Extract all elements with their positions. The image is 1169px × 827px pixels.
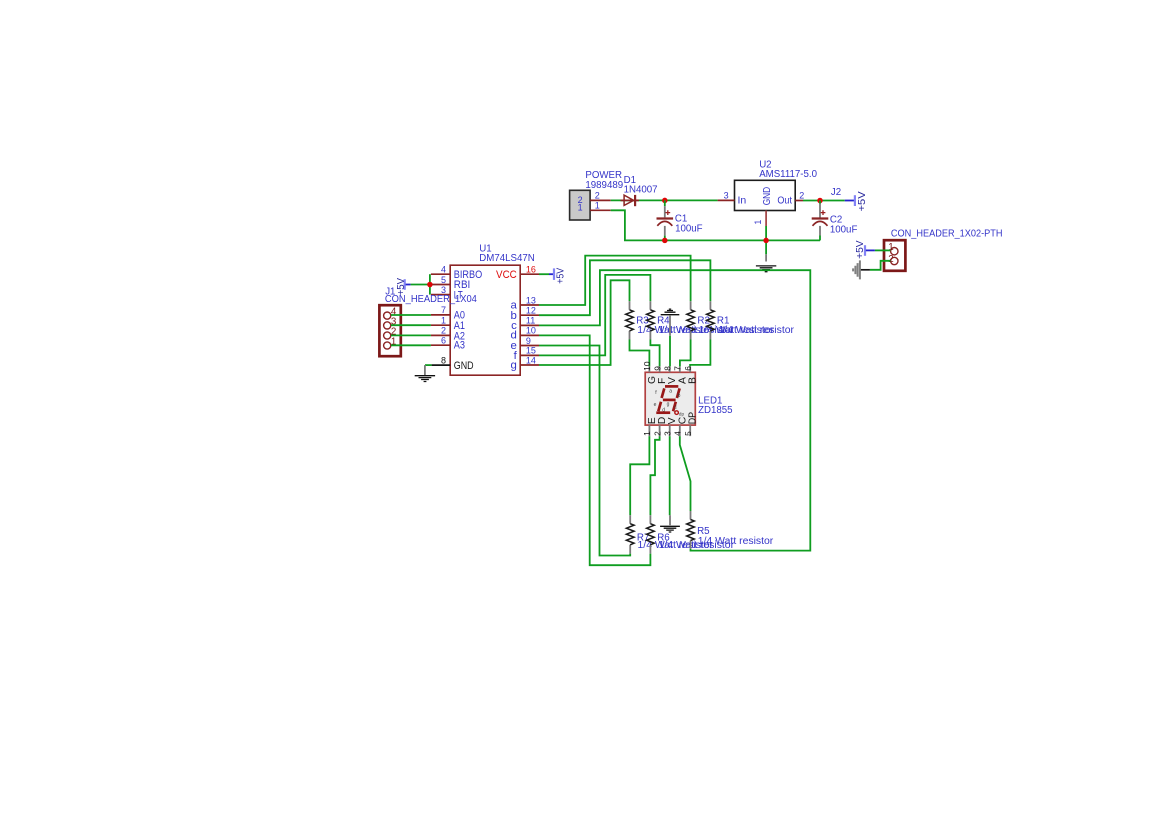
wire header pin2 to ground xyxy=(870,261,891,270)
svg-text:In: In xyxy=(738,195,747,207)
wire ground to display V top pin xyxy=(669,336,671,367)
resistor R2 xyxy=(687,301,775,339)
svg-text:1N4007: 1N4007 xyxy=(624,184,658,195)
svg-text:e: e xyxy=(654,402,657,408)
svg-text:CON_HEADER_1X02-PTH: CON_HEADER_1X02-PTH xyxy=(891,228,1003,239)
svg-text:8: 8 xyxy=(663,366,673,371)
svg-text:1: 1 xyxy=(578,203,583,213)
svg-text:2: 2 xyxy=(888,254,893,265)
segment c xyxy=(673,402,676,411)
svg-text:DM74LS47N: DM74LS47N xyxy=(479,253,534,264)
wire net b: U1 pin12 to R1 top xyxy=(539,260,710,315)
svg-text:5: 5 xyxy=(441,275,446,285)
segment f xyxy=(662,388,665,398)
voltage regulator U2 AMS1117-5.0 xyxy=(718,159,818,226)
U1 right pin stubs xyxy=(520,274,539,365)
svg-text:6: 6 xyxy=(683,366,693,371)
wire display C pin diagonal to R5 top xyxy=(680,436,691,511)
svg-text:VCC: VCC xyxy=(496,269,517,281)
wire net f: U1 pin15 to R4 top xyxy=(539,275,650,356)
svg-text:7: 7 xyxy=(441,305,446,315)
svg-text:3: 3 xyxy=(724,190,729,200)
svg-text:9: 9 xyxy=(652,366,662,371)
svg-text:4: 4 xyxy=(441,265,446,275)
junction dot GND rail xyxy=(763,238,769,244)
svg-text:1: 1 xyxy=(642,431,652,436)
segment g xyxy=(663,399,676,402)
resistor R6 xyxy=(647,515,735,553)
segment e xyxy=(658,402,661,411)
wire net c: U1 pin11 right loop to R5 bottom xyxy=(539,270,810,550)
decimal point xyxy=(675,411,679,415)
wire C1 top stub xyxy=(664,200,666,206)
svg-text:g: g xyxy=(667,402,670,408)
svg-text:1989489: 1989489 xyxy=(585,180,623,191)
wire R4 bottom to display F pin xyxy=(650,340,659,367)
wire display D pin to R6 top xyxy=(650,436,659,515)
IC U1 DM74LS47N xyxy=(431,244,539,376)
supply +5V J2 xyxy=(831,187,868,211)
wire U1 GND pin to ground xyxy=(425,364,432,366)
svg-text:Out: Out xyxy=(777,195,792,207)
segment b xyxy=(677,388,680,398)
svg-text:2: 2 xyxy=(595,190,600,200)
svg-text:CON_HEADER_1X04: CON_HEADER_1X04 xyxy=(385,294,478,305)
wire +5V to RBI junction xyxy=(411,284,430,286)
svg-text:+5V: +5V xyxy=(556,267,567,283)
junction dot C1 bottom on rail xyxy=(662,238,668,244)
7-segment display LED1 ZD1855 xyxy=(642,361,732,436)
diode D1 1N4007 xyxy=(621,175,658,206)
svg-text:7: 7 xyxy=(673,366,683,371)
svg-text:100uF: 100uF xyxy=(830,224,858,235)
wire C2 top stub xyxy=(819,201,821,204)
wire display V bottom pin to ground xyxy=(669,436,671,515)
U1 left pin stubs xyxy=(431,274,450,345)
svg-text:dp: dp xyxy=(679,411,685,416)
segment a xyxy=(665,385,678,388)
svg-text:1/4 Watt resistor: 1/4 Watt resistor xyxy=(698,536,774,547)
connector CON_HEADER_1X02-PTH xyxy=(884,228,1003,270)
junction dot at D1 cathode / C1 top xyxy=(662,198,668,204)
supply +5V at U1 BIRBO/RBI/LT xyxy=(396,278,411,296)
svg-text:1: 1 xyxy=(595,201,600,211)
svg-text:2: 2 xyxy=(441,326,446,336)
wires J1 pins to U1 A0-A3 xyxy=(391,315,431,345)
wire display E pin to R7 top xyxy=(630,436,649,515)
svg-text:8: 8 xyxy=(441,355,446,365)
svg-text:1: 1 xyxy=(753,220,763,225)
wire +5V to header pin1 xyxy=(875,249,891,251)
wire net e: U1 pin9 down to R7 bottom xyxy=(539,346,630,556)
svg-text:4: 4 xyxy=(673,431,683,436)
svg-text:16: 16 xyxy=(526,265,536,275)
svg-text:GND: GND xyxy=(761,186,773,205)
svg-text:2: 2 xyxy=(652,431,662,436)
wire U2 GND pin down xyxy=(765,226,767,254)
wire net a: U1 pin13 to R2 top xyxy=(539,256,691,305)
svg-text:1/4 Watt resistor: 1/4 Watt resistor xyxy=(719,325,795,336)
wire net GNDIN: POWER pin1 down to bottom rail xyxy=(611,210,820,240)
connector POWER 1989489 xyxy=(570,170,624,220)
resistor R1 xyxy=(707,301,795,339)
svg-text:d: d xyxy=(662,408,665,414)
svg-text:2: 2 xyxy=(799,190,804,200)
wire vertical BIRBO-RBI-LT xyxy=(429,274,431,294)
svg-text:B: B xyxy=(688,377,699,384)
wire R2 bottom to display A pin xyxy=(680,340,691,367)
capacitor C2 100uF xyxy=(812,204,858,236)
resistor R3 xyxy=(626,301,714,339)
wire R3 bottom to display G pin xyxy=(630,340,650,367)
svg-text:11: 11 xyxy=(526,316,535,326)
svg-text:13: 13 xyxy=(526,295,536,305)
svg-text:10: 10 xyxy=(642,361,652,371)
wire C2 bottom stub xyxy=(819,236,821,241)
segment d xyxy=(656,411,670,414)
svg-text:15: 15 xyxy=(526,346,536,356)
ground at header pin2 (sideways) xyxy=(853,260,870,279)
supply +5V at U1 VCC xyxy=(539,267,567,283)
display top pin leads 10 9 8 7 6 xyxy=(649,366,690,372)
svg-text:3: 3 xyxy=(663,431,673,436)
resistor R5 xyxy=(687,511,774,549)
svg-text:J2: J2 xyxy=(831,187,841,198)
svg-text:+5V: +5V xyxy=(855,240,866,259)
svg-text:14: 14 xyxy=(526,355,536,365)
display bottom pin leads 1 2 3 4 5 xyxy=(649,425,690,436)
svg-text:+5V: +5V xyxy=(396,278,407,296)
svg-text:1: 1 xyxy=(441,316,446,326)
svg-text:1: 1 xyxy=(888,242,893,253)
svg-text:ZD1855: ZD1855 xyxy=(698,405,732,416)
svg-text:9: 9 xyxy=(526,336,531,346)
svg-text:DP: DP xyxy=(688,412,699,424)
svg-text:5: 5 xyxy=(683,431,693,436)
svg-text:100uF: 100uF xyxy=(675,224,703,235)
svg-text:10: 10 xyxy=(526,326,536,336)
svg-text:A3: A3 xyxy=(454,340,465,352)
wire R1 bottom to display B pin xyxy=(690,340,710,367)
svg-text:GND: GND xyxy=(454,360,474,372)
resistor R7 xyxy=(626,515,713,553)
svg-text:b: b xyxy=(678,393,681,399)
supply +5V at header pin1 xyxy=(855,240,875,259)
svg-text:a: a xyxy=(669,389,672,395)
capacitor C1 100uF xyxy=(657,206,703,236)
junction dot at RBI xyxy=(427,282,433,288)
wire net g: U1 pin14 to R3 top xyxy=(539,280,630,365)
svg-text:g: g xyxy=(510,360,516,372)
svg-text:12: 12 xyxy=(526,306,536,316)
ground under U2 xyxy=(756,254,776,271)
svg-text:AMS1117-5.0: AMS1117-5.0 xyxy=(759,169,817,180)
wire net +5V: U2 Out to J2 supply xyxy=(803,200,845,202)
junction dot U2 out / C2 top xyxy=(817,198,823,204)
connector J1 CON_HEADER_1X04 xyxy=(379,286,477,356)
resistor R4 xyxy=(647,301,735,339)
svg-text:6: 6 xyxy=(441,336,446,346)
inverted ground above display V pin xyxy=(661,309,680,336)
wire C1 bottom stub xyxy=(664,236,666,241)
wire net d: U1 pin10 down to R6 bottom xyxy=(539,335,650,565)
wire net VIN: POWER pin2 to D1 to U2 In xyxy=(611,199,718,201)
svg-text:+5V: +5V xyxy=(857,191,868,212)
ground under U1 pin 8 xyxy=(415,365,435,381)
U1 pin 8 GND stub xyxy=(432,364,451,366)
ground between R6 and R5 xyxy=(660,515,680,532)
